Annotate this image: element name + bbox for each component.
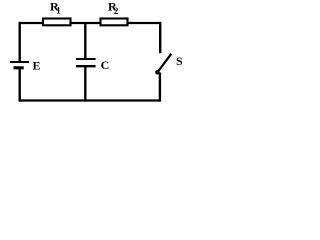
svg-text:S: S (176, 54, 183, 68)
label C (101, 58, 110, 72)
wire bottom (19, 99, 161, 101)
wire middle upper (84, 23, 86, 58)
switch S blade (158, 54, 171, 72)
svg-text:C: C (101, 58, 110, 72)
label R2 (108, 0, 119, 16)
wire right upper (159, 22, 161, 53)
switch S pivot dot (155, 70, 160, 75)
battery E (10, 62, 29, 68)
wire top (19, 22, 161, 24)
wire middle lower (84, 67, 86, 101)
label S (176, 54, 183, 68)
label R1 (50, 0, 61, 16)
svg-text:2: 2 (114, 6, 119, 16)
svg-text:1: 1 (56, 6, 61, 16)
wire left lower (19, 68, 21, 102)
wire right lower (159, 73, 161, 102)
resistor R1 (43, 19, 71, 26)
resistor R2 (101, 19, 128, 26)
svg-text:E: E (33, 59, 41, 73)
label E (33, 59, 41, 73)
wire left upper (19, 22, 21, 62)
capacitor C (76, 59, 96, 66)
